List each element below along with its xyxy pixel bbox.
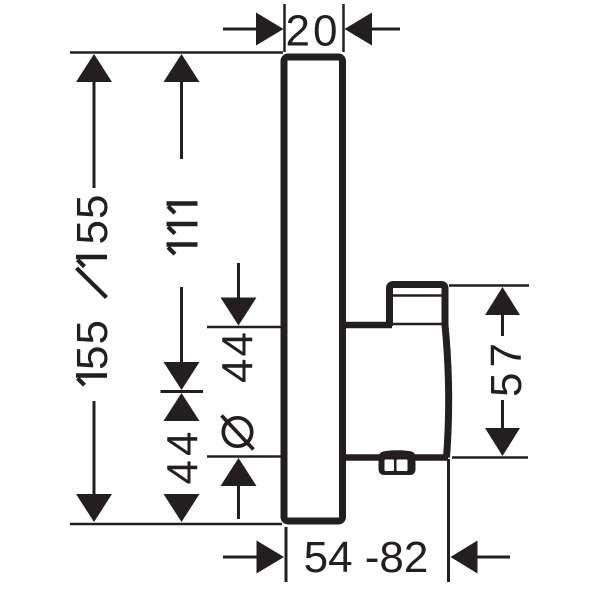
dim 54-82: label	[304, 533, 429, 582]
dim 57: top extension line	[449, 284, 529, 287]
dim 155/155: lower line	[93, 401, 96, 497]
svg-text:55: 55	[68, 319, 117, 370]
wall plate	[284, 57, 343, 521]
dim diameter 44: up arrow	[221, 458, 257, 486]
dim diameter 44: upper tick	[207, 326, 283, 329]
dim 20: right arrow	[345, 13, 401, 46]
dim diameter 44: label	[214, 330, 263, 449]
dim 57: bottom extension line	[452, 456, 528, 459]
dim 57: label	[482, 338, 531, 397]
dim 57: up arrow	[485, 287, 520, 315]
svg-text:54 -82: 54 -82	[304, 533, 429, 582]
dim 57: down arrow	[485, 428, 520, 456]
bottom extension line (155/44)	[70, 523, 282, 526]
dim diameter 44: upper line	[237, 263, 240, 300]
svg-text:55: 55	[68, 194, 117, 245]
knob top seam	[392, 294, 442, 297]
knob bottom seam	[390, 323, 444, 326]
svg-text:44: 44	[159, 428, 208, 485]
dim diameter 44: down arrow	[221, 298, 257, 326]
svg-text:20: 20	[286, 7, 341, 56]
dim 57: upper line	[501, 312, 504, 336]
bottom fitting	[379, 450, 416, 475]
dim 20: left extension line	[283, 4, 286, 52]
dim 155/155: label	[68, 194, 117, 386]
dim diameter 44: lower tick	[207, 455, 283, 458]
dim 111: label	[167, 204, 198, 255]
svg-text:57: 57	[482, 338, 531, 397]
dim 20: label	[286, 7, 341, 56]
dim 155/155: upper line	[93, 79, 96, 188]
dim 155/155: top arrow	[76, 54, 112, 82]
dim 44 (lower left): bottom arrow	[164, 494, 200, 522]
dim 111: bottom arrow	[164, 362, 200, 390]
svg-text:44: 44	[214, 330, 263, 383]
dim 20: left arrow	[223, 13, 284, 46]
knob and valve body right edge	[390, 285, 449, 458]
dim 111: top arrow	[164, 54, 200, 82]
centre tick	[161, 390, 204, 393]
valve body bottom edge	[345, 454, 448, 461]
dim 44 (lower left): top arrow	[164, 393, 200, 421]
dim 111: upper line	[180, 79, 183, 159]
dim 54-82: right extension line	[447, 459, 450, 582]
dim 54-82: left arrow	[223, 541, 284, 574]
dim 20: right extension line	[342, 4, 345, 52]
dim 54-82: left extension line	[285, 527, 288, 582]
dim diameter 44: lower line	[237, 483, 240, 519]
dim 111: lower line	[180, 287, 183, 362]
dim 57: lower line	[501, 400, 504, 428]
dim 54-82: right arrow	[451, 541, 511, 574]
dim 155/155: bottom arrow	[76, 494, 112, 522]
top extension line (155/111)	[70, 51, 283, 54]
valve body top edge	[345, 322, 392, 329]
dim 44 (lower left): label	[159, 428, 208, 485]
